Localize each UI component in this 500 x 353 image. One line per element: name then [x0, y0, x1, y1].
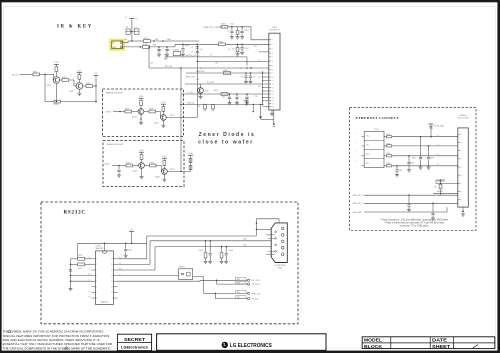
svg-text:RJ-45 CONN: RJ-45 CONN [458, 118, 469, 120]
capacitor C11 [191, 44, 199, 117]
svg-text:5: 5 [272, 57, 273, 59]
block ETHERNET CONNECT [350, 108, 477, 231]
resistor R451 [384, 143, 458, 147]
wire [193, 277, 216, 294]
wire [78, 79, 80, 83]
svg-text:2: 2 [461, 142, 462, 144]
svg-text:LAN_LED_G: LAN_LED_G [353, 194, 364, 197]
wire KEY2 out [167, 169, 190, 172]
wire trunk [185, 82, 269, 84]
svg-text:TXD: TXD [243, 245, 247, 247]
svg-text:16: 16 [272, 97, 274, 99]
svg-text:52: 52 [437, 154, 439, 156]
title block MODEL/BLOCK/DATE/SHEET [362, 337, 495, 349]
power 5V node [244, 99, 249, 106]
wire LAN_LED_G [353, 194, 458, 197]
node VCC_232 [215, 293, 259, 300]
svg-text:R405: R405 [219, 42, 224, 44]
transistor Q7 [198, 84, 209, 99]
svg-text:4: 4 [461, 159, 462, 161]
svg-text:3: 3 [461, 151, 462, 153]
svg-text:6: 6 [356, 161, 357, 163]
wire [93, 75, 97, 101]
svg-text:14: 14 [272, 91, 274, 93]
svg-text:17: 17 [272, 101, 274, 103]
svg-text:R413: R413 [62, 77, 67, 79]
resistor R23 [149, 108, 156, 113]
svg-text:C8: C8 [241, 76, 243, 78]
svg-text:13: 13 [272, 87, 274, 89]
svg-text:11: 11 [111, 287, 113, 289]
svg-text:LAN_LED_Y: LAN_LED_Y [353, 202, 364, 205]
capacitor C12 [227, 27, 234, 39]
svg-text:IR_OUT: IR_OUT [207, 82, 215, 84]
svg-text:P403: P403 [278, 267, 282, 269]
capacitor C456 [431, 203, 435, 220]
svg-text:R1: R1 [434, 187, 436, 189]
svg-text:3.3V: 3.3V [162, 156, 167, 158]
svg-text:RM401: RM401 [174, 50, 180, 52]
connector P403 D-SUB9 [266, 223, 288, 270]
svg-text:THE CRITICAL COMPONENTS IN THE: THE CRITICAL COMPONENTS IN THE SYMBOL MA… [3, 346, 112, 350]
wire [55, 83, 57, 102]
svg-text:6: 6 [96, 287, 97, 289]
svg-text:GND_A: GND_A [187, 101, 195, 104]
svg-text:FB401: FB401 [179, 267, 185, 269]
svg-text:RS232C: RS232C [64, 211, 86, 216]
wire [163, 174, 165, 179]
capacitor C451 [407, 155, 414, 172]
wire KEY1 out [166, 115, 197, 117]
wire [140, 105, 142, 108]
wire [78, 243, 147, 258]
svg-text:4: 4 [272, 53, 273, 55]
resistor R18 [198, 105, 215, 112]
svg-text:SHEET: SHEET [432, 344, 450, 349]
svg-text:10u: 10u [254, 46, 257, 48]
wire RXD [117, 239, 271, 265]
wire LINK [436, 179, 458, 184]
resistor R455 [434, 180, 442, 194]
svg-text:3: 3 [272, 49, 273, 51]
svg-text:C450: C450 [398, 170, 402, 172]
svg-text:CONTROL IO: CONTROL IO [269, 30, 281, 32]
wire [69, 80, 77, 86]
wire [163, 165, 165, 168]
wire [156, 166, 162, 172]
svg-text:5V_232: 5V_232 [252, 298, 260, 300]
svg-text:53: 53 [437, 164, 439, 166]
capacitor C450 [395, 165, 402, 177]
svg-text:Q424: Q424 [155, 176, 160, 178]
power 3.3V [162, 156, 167, 158]
wire [141, 159, 143, 162]
capacitor C14 [240, 44, 249, 54]
connector P401 [261, 27, 281, 127]
svg-text:1k: 1k [210, 55, 212, 57]
svg-text:R415: R415 [199, 250, 203, 252]
capacitor C18 [235, 94, 239, 105]
wire TXD2 [117, 245, 271, 270]
resistor R4 [62, 77, 69, 82]
svg-text:2: 2 [272, 44, 273, 46]
resistor R2 [54, 100, 61, 106]
svg-text:R408: R408 [164, 55, 168, 57]
note safety fine print [3, 330, 113, 351]
svg-text:* Trace impedance : 100 oh: * Trace impedance : 100 ohm differential… [380, 219, 449, 222]
node IR_RX [12, 74, 33, 76]
wire [162, 111, 164, 114]
svg-text:1: 1 [356, 133, 357, 135]
ground [162, 179, 166, 181]
svg-text:SERVICE: SERVICE [196, 71, 205, 73]
svg-text:3.3V: 3.3V [139, 150, 144, 152]
resistor R16 [223, 70, 230, 75]
capacitor C16 [249, 73, 256, 84]
resistor R17 [221, 93, 228, 96]
svg-text:14: 14 [111, 270, 113, 272]
svg-text:C452: C452 [412, 157, 416, 159]
transformer T401 magnetics [356, 129, 385, 168]
svg-text:P3.3V_LAN: P3.3V_LAN [434, 125, 445, 128]
svg-text:R424: R424 [150, 162, 155, 164]
svg-text:12: 12 [272, 84, 274, 86]
svg-text:KEY1: KEY1 [170, 115, 175, 117]
svg-text:IR1: IR1 [125, 39, 128, 41]
svg-text:10: 10 [272, 77, 274, 79]
svg-text:6: 6 [272, 61, 273, 63]
svg-text:R412: R412 [54, 104, 59, 106]
ground [461, 212, 465, 216]
svg-text:P11: P11 [255, 96, 258, 98]
svg-text:C42: C42 [222, 97, 225, 99]
resistor R13 [221, 24, 228, 29]
transistor Q2 [69, 83, 83, 94]
svg-text:1: 1 [272, 40, 273, 42]
svg-text:REM_OUT: REM_OUT [186, 77, 196, 79]
wire [55, 72, 57, 78]
svg-text:P5: P5 [258, 77, 260, 79]
wire [140, 114, 142, 122]
wire [59, 79, 62, 81]
wire [151, 39, 200, 41]
node TX_232C [217, 280, 261, 286]
node GND_232 [215, 291, 262, 296]
resistor R3 [55, 64, 58, 71]
transistor Q4 [154, 115, 166, 125]
svg-text:15: 15 [111, 264, 113, 266]
resistor R452 [384, 153, 458, 157]
svg-text:RX_232C: RX_232C [252, 280, 261, 282]
power 5V [94, 73, 99, 75]
svg-text:P8: P8 [258, 86, 260, 88]
svg-text:LGElectronics: LGElectronics [121, 345, 148, 349]
block REMOCON S/W 1 [103, 89, 184, 137]
power 3.3V [139, 96, 144, 98]
svg-text:R451: R451 [386, 143, 390, 145]
svg-text:7: 7 [272, 66, 273, 68]
wire [56, 101, 97, 103]
connector LAN401 RJ-45 [458, 114, 469, 212]
svg-text:LINK/ACT: LINK/ACT [437, 180, 446, 183]
capacitor C40b [165, 46, 169, 56]
svg-text:LAN401: LAN401 [459, 114, 467, 117]
svg-text:MAX232: MAX232 [101, 301, 108, 304]
svg-text:IC401: IC401 [96, 245, 102, 247]
svg-text:Q422: Q422 [154, 122, 159, 124]
ground [139, 122, 143, 124]
node RX_232C [216, 278, 261, 283]
svg-text:R417: R417 [214, 90, 218, 92]
svg-text:15: 15 [272, 94, 274, 96]
svg-text:MODEL: MODEL [364, 338, 382, 343]
resistor R453 [384, 163, 458, 167]
svg-text:R411: R411 [33, 71, 37, 73]
wire trunk [149, 66, 269, 69]
transistor Q3 [132, 109, 144, 119]
svg-text:REMOCON S/W: REMOCON S/W [107, 144, 124, 146]
svg-text:5: 5 [96, 281, 97, 283]
resistor R27 [150, 162, 157, 167]
resistor R14 [236, 27, 243, 39]
resistor R24 [162, 104, 165, 111]
svg-text:IR_RX: IR_RX [12, 74, 19, 76]
capacitor C4 power filter [125, 17, 139, 42]
wire [144, 165, 149, 167]
resistor RM401 array [173, 50, 181, 56]
wire SPEED [433, 191, 458, 194]
section title IR &amp; KEY [57, 24, 93, 29]
svg-text:R421: R421 [125, 108, 130, 110]
svg-text:Q421: Q421 [132, 116, 137, 118]
capacitor C21 [117, 166, 121, 178]
svg-text:4R7: 4R7 [155, 39, 158, 41]
wire [144, 111, 149, 113]
capacitor C19 [245, 94, 249, 105]
ground [161, 125, 165, 127]
svg-text:A1: A1 [166, 57, 168, 60]
wire IR signal [123, 39, 144, 43]
svg-text:LG ELECTRONICS: LG ELECTRONICS [230, 343, 272, 349]
wire [156, 112, 161, 118]
svg-text:R403: R403 [221, 24, 226, 26]
svg-text:R406: R406 [185, 45, 189, 47]
title block LG ELECTRONICS logo [157, 334, 326, 351]
svg-text:2: 2 [96, 264, 97, 266]
svg-text:R407: R407 [223, 70, 228, 72]
svg-text:BLOCK: BLOCK [364, 344, 383, 349]
svg-text:C2: C2 [191, 52, 193, 54]
transistor Q6 [155, 169, 167, 179]
svg-text:B1: B1 [229, 49, 231, 51]
wire TXD [147, 236, 256, 243]
svg-text:KEY2: KEY2 [105, 164, 111, 166]
svg-text:11: 11 [272, 81, 274, 83]
svg-text:Zener Diode is: Zener Diode is [199, 132, 256, 138]
node KEY0 [106, 111, 125, 114]
svg-text:10: 10 [111, 292, 113, 294]
wire [197, 52, 268, 112]
svg-text:REMOCON S/W: REMOCON S/W [106, 93, 123, 95]
resistor R31 pull-up chain [188, 153, 193, 172]
resistor R26 [140, 152, 143, 159]
wire trunk [186, 71, 269, 74]
block REMOCON S/W 2 [103, 141, 184, 187]
svg-text:16: 16 [111, 259, 113, 261]
svg-text:Q412: Q412 [69, 91, 74, 93]
svg-text:R1: R1 [126, 27, 128, 29]
svg-text:MAX232: MAX232 [96, 247, 105, 250]
wire bus [180, 67, 182, 171]
capacitor C411 [71, 263, 92, 270]
svg-text:C406: C406 [166, 39, 171, 41]
svg-text:KEY_IN: KEY_IN [165, 66, 173, 68]
resistor R25 [126, 162, 133, 167]
ground [140, 176, 144, 178]
svg-text:J2: J2 [200, 68, 202, 70]
node KEY2 [105, 164, 127, 167]
capacitor C13 [240, 27, 244, 39]
svg-text:51: 51 [437, 144, 439, 146]
resistor R12 [143, 44, 150, 48]
note value labels [150, 23, 260, 98]
wire [45, 101, 54, 103]
svg-text:KEY2: KEY2 [170, 169, 175, 171]
wire trunk AUDIO [165, 54, 247, 66]
ground [69, 284, 73, 291]
svg-text:TX_232C: TX_232C [252, 284, 261, 286]
svg-text:R9: R9 [198, 106, 200, 108]
wire trunk [181, 92, 269, 95]
svg-text:0.1u: 0.1u [200, 49, 204, 51]
capacitor C453 [427, 145, 434, 169]
svg-text:1: 1 [96, 259, 97, 261]
power 3.3V [161, 102, 166, 104]
svg-text:R453: R453 [386, 163, 390, 165]
wire [133, 165, 139, 167]
wire [162, 120, 164, 125]
svg-text:SECRET: SECRET [124, 337, 145, 343]
svg-text:C412: C412 [128, 250, 132, 252]
svg-text:100: 100 [196, 79, 199, 81]
svg-text:5: 5 [461, 167, 462, 169]
wire trunk [181, 101, 263, 105]
wire [148, 47, 150, 68]
resistor R5 [78, 73, 81, 80]
svg-text:RXD: RXD [243, 239, 248, 241]
svg-text:3.3V: 3.3V [188, 153, 193, 155]
svg-text:R452: R452 [386, 153, 390, 155]
svg-text:12: 12 [111, 281, 113, 283]
svg-text:Q411: Q411 [47, 85, 51, 87]
svg-text:IR & KEY: IR & KEY [57, 24, 93, 29]
svg-text:C40: C40 [158, 50, 161, 52]
svg-text:8: 8 [96, 298, 97, 300]
svg-text:C41: C41 [167, 50, 170, 52]
svg-text:8: 8 [272, 69, 273, 71]
svg-text:RX-: RX- [366, 163, 370, 165]
svg-text:KEY0: KEY0 [106, 112, 112, 114]
svg-text:1: 1 [461, 134, 462, 136]
capacitor C455 [407, 195, 411, 212]
capacitor C452 [412, 136, 423, 169]
wire LAN_LED_Y [353, 202, 458, 205]
resistor R416 capacitor C416 pair [220, 247, 234, 264]
svg-text:19: 19 [272, 106, 274, 108]
svg-text:SPEED: SPEED [437, 191, 444, 193]
wire [228, 26, 269, 40]
svg-text:8: 8 [461, 191, 462, 193]
note ethernet impedance [380, 219, 449, 228]
svg-text:1k: 1k [240, 68, 242, 70]
power 5V [129, 229, 134, 243]
wire [132, 111, 139, 113]
svg-text:3: 3 [96, 270, 97, 272]
power P3.3V_LAN [429, 124, 445, 138]
capacitor C412 [124, 243, 132, 258]
diode ZD401 zener [232, 44, 239, 57]
svg-text:R423: R423 [126, 162, 131, 164]
wire [40, 74, 54, 102]
svg-text:C3: C3 [227, 30, 229, 32]
svg-text:DATE: DATE [432, 338, 447, 343]
resistor R11 [144, 38, 164, 42]
svg-text:3: 3 [356, 151, 357, 153]
svg-text:AUDIO_OUT_L: AUDIO_OUT_L [186, 54, 201, 57]
connector P402 (highlighted) [110, 40, 123, 50]
wire [70, 275, 92, 277]
wire KEY signal [123, 46, 143, 48]
svg-text:4: 4 [96, 275, 97, 277]
svg-text:C405: C405 [245, 30, 249, 32]
wire [256, 219, 279, 236]
resistor R450 [384, 134, 458, 138]
power 3.3V [77, 70, 82, 72]
power 3.3V [139, 150, 144, 152]
note zener diode [198, 132, 255, 146]
capacitor C17 [228, 94, 232, 105]
ground [77, 93, 81, 95]
svg-text:ETHERNET CONNECT: ETHERNET CONNECT [356, 116, 400, 120]
svg-text:4: 4 [381, 166, 382, 168]
transistor Q1 [47, 77, 60, 87]
ground [259, 105, 262, 120]
svg-text:7: 7 [96, 292, 97, 294]
svg-text:P1: P1 [258, 61, 260, 63]
svg-text:1: 1 [381, 137, 382, 139]
wire [70, 259, 78, 284]
svg-text:3.3V: 3.3V [54, 62, 59, 64]
resistor R6 [86, 83, 93, 88]
svg-text:100: 100 [231, 23, 234, 25]
resistor R21 [125, 108, 132, 113]
svg-text:C44: C44 [215, 63, 218, 65]
op-amp U401 MAX232 driver [88, 245, 123, 304]
svg-text:50: 50 [437, 135, 439, 137]
svg-text:9: 9 [461, 199, 462, 201]
capacitor C15 [241, 73, 248, 84]
svg-text:LAN_PWR: LAN_PWR [353, 211, 363, 214]
svg-text:TX-: TX- [366, 145, 369, 147]
wire [70, 280, 92, 282]
svg-text:C9: C9 [253, 76, 255, 78]
resistor R1 [33, 71, 40, 75]
wire [141, 168, 143, 176]
svg-text:C451: C451 [410, 162, 414, 164]
wire LAN_PWR [353, 207, 448, 214]
svg-text:6: 6 [461, 175, 462, 177]
svg-text:3.3V: 3.3V [161, 102, 166, 104]
